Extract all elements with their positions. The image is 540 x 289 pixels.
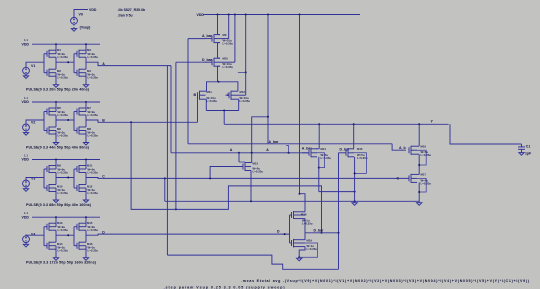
pmos M9: [46, 166, 48, 172]
wire M13 source down: [250, 171, 252, 202]
svg-text:C1: C1: [526, 145, 531, 149]
svg-text:L=0.35u: L=0.35u: [302, 222, 313, 226]
svg-text:L=0.35u: L=0.35u: [58, 76, 69, 80]
pmos M12 gate C: [226, 94, 230, 96]
wire VDD branch x268: [267, 15, 269, 144]
nmos M17 gate C: [408, 175, 410, 181]
svg-text:PULSE(0 3.3 88n 50p 50p 40n 16: PULSE(0 3.3 88n 50p 50p 40n 160ns): [26, 203, 92, 207]
wire C branch to bus: [164, 178, 166, 201]
svg-text:VDD: VDD: [22, 42, 30, 46]
svg-text:L=0.35u: L=0.35u: [88, 134, 99, 138]
ground under source: [23, 76, 28, 79]
ground under source: [23, 189, 28, 192]
ground: [53, 85, 58, 88]
wire inverter output bar: [85, 173, 87, 185]
wire M9 to M10: [217, 43, 219, 59]
svg-text:L=0.35u: L=0.35u: [88, 113, 99, 117]
wire V9 to VDD: [74, 10, 88, 18]
wire drain join bar: [206, 110, 238, 112]
voltage source V3: [23, 180, 30, 187]
wire M15 source down: [354, 157, 356, 202]
row D: VDD rail: [32, 216, 100, 218]
wire net C: [103, 177, 409, 179]
inverter stage 2 row D: gate wire: [73, 227, 75, 246]
pmos M1: [46, 51, 48, 57]
svg-text:M15: M15: [357, 147, 363, 151]
svg-text:A_bar: A_bar: [202, 34, 213, 38]
wire Y drop to M15: [353, 124, 355, 148]
nmos M10: [46, 185, 48, 191]
svg-text:M19: M19: [307, 239, 313, 243]
wire M13 gate feed: [210, 167, 243, 179]
svg-text:VDD: VDD: [22, 215, 30, 219]
ground: [53, 258, 58, 261]
svg-text:.lib S827_R35.lib: .lib S827_R35.lib: [118, 8, 146, 12]
ground: [53, 200, 58, 203]
wire M14 source down: [318, 157, 320, 192]
svg-text:A_b: A_b: [399, 146, 406, 150]
nmos M14: [46, 243, 48, 249]
pmos M11: [76, 166, 78, 172]
svg-text:A: A: [230, 148, 233, 152]
ground: [83, 85, 88, 88]
ground under V9: [71, 29, 76, 32]
wire inverter output bar: [55, 173, 57, 185]
svg-text:1.1: 1.1: [24, 153, 28, 157]
svg-text:B: B: [194, 93, 197, 97]
svg-text:L=0.35u: L=0.35u: [223, 42, 234, 46]
svg-text:M17: M17: [421, 173, 427, 177]
svg-text:M18: M18: [301, 213, 307, 217]
wire Y drop to M14: [318, 124, 320, 148]
nmos M2: [46, 70, 48, 76]
svg-text:M13: M13: [253, 161, 259, 165]
svg-text:L=0.35u: L=0.35u: [88, 191, 99, 195]
wire row output C: [86, 177, 103, 180]
ground right stack: [417, 203, 422, 206]
svg-text:PULSE(0 3.3 172n 50p 50p 160n: PULSE(0 3.3 172n 50p 50p 160n 320ns): [26, 261, 97, 265]
wire M15 bulk loop: [354, 153, 366, 174]
wire net A horizontal: [171, 152, 309, 154]
svg-text:PULSE(0 3.3 44n 50p 50p 40n 80: PULSE(0 3.3 44n 50p 50p 40n 80ns): [26, 145, 90, 149]
nmos M14 gate A_bar: [302, 152, 309, 154]
wire row output D: [86, 234, 103, 235]
pmos M11 gate B: [197, 92, 199, 98]
nmos M19: [291, 240, 293, 246]
svg-text:.tran 0 5u: .tran 0 5u: [118, 14, 133, 18]
wire ground bus: [165, 200, 419, 202]
wire VDD branch bulk BC: [245, 15, 247, 96]
svg-text:L=0.35u: L=0.35u: [58, 134, 69, 138]
svg-text:M16: M16: [421, 144, 427, 148]
wire M17 bulk loop: [417, 178, 426, 192]
svg-text:M11: M11: [207, 90, 213, 94]
wire VDD to M9: [217, 15, 219, 35]
wire stage1 to stage2: [56, 234, 74, 236]
svg-text:L=0.35u: L=0.35u: [88, 76, 99, 80]
voltage source V9: [71, 17, 78, 24]
svg-text:1pF: 1pF: [525, 152, 531, 156]
wire net B: [103, 121, 198, 123]
wire net A_bar: [188, 38, 205, 40]
wire row output A: [86, 62, 103, 65]
svg-text:M9: M9: [223, 33, 227, 37]
wire nmos source to ground: [299, 247, 305, 258]
voltage source V4: [23, 236, 30, 243]
wire M19 bulk loop: [299, 243, 317, 257]
svg-text:L=0.35u: L=0.35u: [58, 249, 69, 253]
wire stage1 to stage2: [56, 119, 74, 121]
svg-text:L=0.35u: L=0.35u: [58, 113, 69, 117]
wire inverter output bar: [55, 230, 57, 242]
svg-text:M14: M14: [321, 147, 327, 151]
inverter stage 1 row C: gate wire: [43, 169, 45, 188]
inverter stage 1 row A: gate wire: [43, 54, 45, 73]
svg-text:.step param Vsup 0.25 3.3 0.05: .step param Vsup 0.25 3.3 0.05 (supply s…: [164, 285, 286, 289]
row C: VDD rail: [32, 159, 100, 161]
svg-text:D_bar: D_bar: [314, 228, 325, 232]
svg-text:VDD: VDD: [89, 8, 97, 12]
wire D_bar vertical riser: [338, 153, 340, 269]
pmos M13: [46, 224, 48, 230]
wire source to gates: [26, 178, 44, 181]
wire corner x251: [252, 117, 268, 153]
wire M10 drain down: [217, 66, 219, 82]
nmos M16: [76, 243, 78, 249]
svg-text:VDD: VDD: [22, 158, 30, 162]
wire VDD rail middle: [203, 14, 360, 16]
svg-text:.meas Etotal avg -(Vsup*I(V9)+: .meas Etotal avg -(Vsup*I(V9)+V(N001)*I(…: [241, 279, 530, 283]
inverter stage 2 row A: gate wire: [73, 54, 75, 73]
wire net D_bar left: [176, 61, 205, 63]
wire net A vertical: [170, 66, 172, 153]
wire inverter output bar: [55, 115, 57, 127]
svg-text:V4: V4: [31, 232, 35, 236]
wire source to gates: [26, 234, 44, 237]
nmos M16: [408, 147, 410, 153]
svg-text:A: A: [266, 148, 269, 152]
wire net A from row1: [103, 65, 171, 67]
ground bottom inverter: [297, 258, 302, 261]
wire row output B: [86, 120, 103, 122]
wire source to gates: [26, 120, 44, 124]
wire inverter output bar: [85, 230, 87, 242]
nmos M13: [251, 153, 253, 163]
ground: [83, 200, 88, 203]
svg-text:1.1: 1.1: [24, 211, 28, 215]
pmos M3: [76, 51, 78, 57]
nmos M12: [76, 185, 78, 191]
voltage source V1: [23, 67, 30, 74]
svg-text:PULSE(0 3.3 20n 50p 50p 20n 40: PULSE(0 3.3 20n 50p 50p 20n 40ns): [26, 88, 90, 92]
wire bulk M10: [234, 15, 236, 63]
capacitor C1: [521, 144, 523, 147]
wire inverter output bar: [85, 57, 87, 69]
wire net D: [103, 233, 290, 235]
ground under source: [23, 133, 28, 136]
wire M16 source to M17: [418, 155, 420, 175]
wire node Y rail: [224, 123, 448, 125]
wire D_bar output: [305, 232, 339, 234]
svg-text:L=0.35u: L=0.35u: [321, 156, 332, 160]
svg-text:V9: V9: [79, 13, 83, 17]
svg-text:L=0.35u: L=0.35u: [88, 171, 99, 175]
svg-text:Y: Y: [431, 119, 434, 123]
ground: [83, 143, 88, 146]
svg-text:D_bar: D_bar: [202, 58, 213, 62]
label hook: [288, 152, 290, 154]
svg-text:L=0.35u: L=0.35u: [240, 99, 251, 103]
inverter stage 2 row C: gate wire: [73, 169, 75, 188]
wire split to B/C sources: [207, 82, 238, 91]
svg-text:L=0.35u: L=0.35u: [58, 171, 69, 175]
wire source to gates: [26, 62, 44, 67]
svg-text:L=0.35u: L=0.35u: [307, 247, 318, 251]
nmos M6: [46, 128, 48, 134]
wire VDD jog: [299, 193, 301, 195]
svg-text:L=0.35u: L=0.35u: [88, 249, 99, 253]
wire output bar: [304, 219, 306, 240]
ground under source: [23, 244, 28, 247]
svg-text:1.1: 1.1: [24, 38, 28, 42]
svg-text:L=0.35u: L=0.35u: [58, 191, 69, 195]
svg-text:L=0.35u: L=0.35u: [223, 65, 234, 69]
pmos M10 gate D_bar: [205, 61, 212, 63]
svg-text:D: D: [277, 230, 280, 234]
svg-text:L=0.35u: L=0.35u: [207, 99, 218, 103]
wire to Y rail: [223, 111, 225, 125]
inverter gate wire: [289, 215, 291, 243]
svg-text:V1: V1: [31, 64, 35, 68]
svg-text:{Vsup}: {Vsup}: [80, 25, 92, 29]
wire stage1 to stage2: [56, 61, 74, 63]
pmos M5: [46, 109, 48, 115]
wire stage1 to stage2: [56, 177, 74, 179]
wire B up to pmos gate: [197, 95, 199, 122]
pmos M7: [76, 109, 78, 115]
nmos M15 gate D_bar: [345, 150, 347, 156]
svg-text:A_bar: A_bar: [269, 140, 280, 144]
wire staircase vertical: [166, 66, 168, 256]
svg-text:V2: V2: [31, 121, 35, 125]
wire staircase: [167, 255, 338, 269]
row A: VDD rail: [32, 43, 100, 45]
svg-text:L=0.35u: L=0.35u: [88, 55, 99, 59]
nmos M4: [76, 70, 78, 76]
svg-text:L=0.35u: L=0.35u: [58, 228, 69, 232]
svg-text:L=0.35u: L=0.35u: [88, 228, 99, 232]
wire M17 source down: [418, 182, 420, 201]
svg-text:L=0.35u: L=0.35u: [253, 169, 264, 173]
ground: [83, 258, 88, 261]
pmos M18: [291, 212, 293, 218]
svg-text:L=0.35u: L=0.35u: [58, 55, 69, 59]
inverter stage 1 row D: gate wire: [43, 227, 45, 246]
wire source join: [319, 191, 355, 193]
wire inverter output bar: [55, 57, 57, 69]
wire Y to load cap: [450, 124, 520, 144]
voltage source V2: [23, 124, 30, 131]
wire bulk M12: [237, 94, 246, 96]
ground on bus: [352, 203, 357, 206]
inverter stage 1 row B: gate wire: [43, 112, 45, 131]
wire Y drop to M16: [418, 124, 420, 146]
svg-text:M12: M12: [240, 90, 246, 94]
wire inverter output bar: [85, 115, 87, 127]
pmos M9 gate A_bar: [205, 38, 212, 40]
wire M14 bulk loop: [317, 153, 325, 168]
svg-text:M10: M10: [223, 57, 229, 61]
row B: VDD rail: [32, 101, 100, 103]
nmos M8: [76, 128, 78, 134]
wire B leg down and over: [131, 122, 321, 233]
ground: [53, 143, 58, 146]
wire M16 bulk loop: [417, 150, 426, 165]
pmos M15: [76, 224, 78, 230]
wire bulk M9: [228, 15, 230, 39]
ground under C1: [519, 153, 524, 156]
wire VDD branch x299: [299, 15, 301, 194]
svg-text:1.1: 1.1: [24, 96, 28, 100]
svg-text:VDD: VDD: [22, 100, 30, 104]
inverter stage 2 row B: gate wire: [73, 112, 75, 131]
